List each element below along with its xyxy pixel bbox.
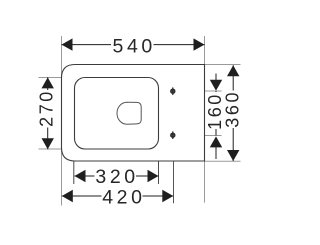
dimension 540 line right segment [154, 44, 205, 46]
mounting hole phi 1 [171, 87, 175, 95]
dimension 270 bottom arrow [42, 138, 54, 149]
dimension 270 line bottom segment [47, 128, 49, 150]
dimension 160 top arrow [210, 80, 222, 91]
dimension 360 top arrow [227, 65, 239, 76]
dimension 270 line top segment [47, 77, 49, 90]
dimension 360 line top segment [232, 65, 234, 90]
wire extension line 320 right [158, 162, 160, 185]
dimension 160 top tail [215, 74, 217, 82]
svg-text:420: 420 [102, 187, 145, 209]
wire extension line 360 top [205, 64, 241, 66]
dimension 270 top arrow [42, 77, 54, 88]
dimension 540 right arrow [194, 38, 205, 50]
dimension 320 left arrow [75, 170, 86, 182]
toilet body outline [62, 65, 205, 162]
dimension 160 label [205, 92, 225, 130]
dimension 270 label [36, 89, 56, 127]
mounting hole phi 2 [171, 131, 175, 139]
dimension 160 bottom arrow [210, 136, 222, 147]
dimension 360 bottom arrow [227, 150, 239, 161]
svg-text:540: 540 [113, 36, 156, 58]
dimension 160 bottom tail [215, 147, 217, 159]
wire extension line 270 bottom [39, 148, 62, 150]
svg-text:320: 320 [95, 166, 138, 188]
wire extension line 320 left [73, 162, 75, 185]
wire extension line left edge down (420 left) [61, 150, 63, 206]
dimension 420 line left segment [62, 195, 102, 197]
wire extension line left of 540 [61, 36, 63, 79]
dimension 320 right arrow [148, 170, 159, 182]
dimension 360 label [223, 90, 243, 128]
wire extension line 360 bottom [205, 160, 241, 162]
dimension 320 line left segment [75, 175, 95, 177]
svg-text:360: 360 [223, 90, 243, 128]
wire extension line right of 540 [204, 36, 206, 65]
dimension 320 line right segment [136, 175, 159, 177]
wire extension line 270 top [39, 77, 62, 79]
wire extension line hole top (160) [205, 90, 222, 92]
dimension 420 right arrow [162, 190, 173, 202]
svg-text:270: 270 [36, 89, 56, 127]
wire extension line right edge down [204, 162, 206, 203]
drain outline [117, 102, 141, 124]
dimension 420 left arrow [62, 190, 73, 202]
toilet rim inner outline [75, 78, 159, 150]
dimension 160 line bottom segment [215, 129, 217, 136]
dimension 540 left arrow [62, 38, 73, 50]
dimension 360 line bottom segment [232, 128, 234, 161]
dimension 420 line right segment [143, 195, 174, 197]
wire extension line hole bottom (160) [205, 135, 222, 137]
dimension 160 line top segment [215, 91, 217, 92]
dimension 540 line left segment [62, 44, 112, 46]
wire extension line 420 right [173, 162, 175, 204]
